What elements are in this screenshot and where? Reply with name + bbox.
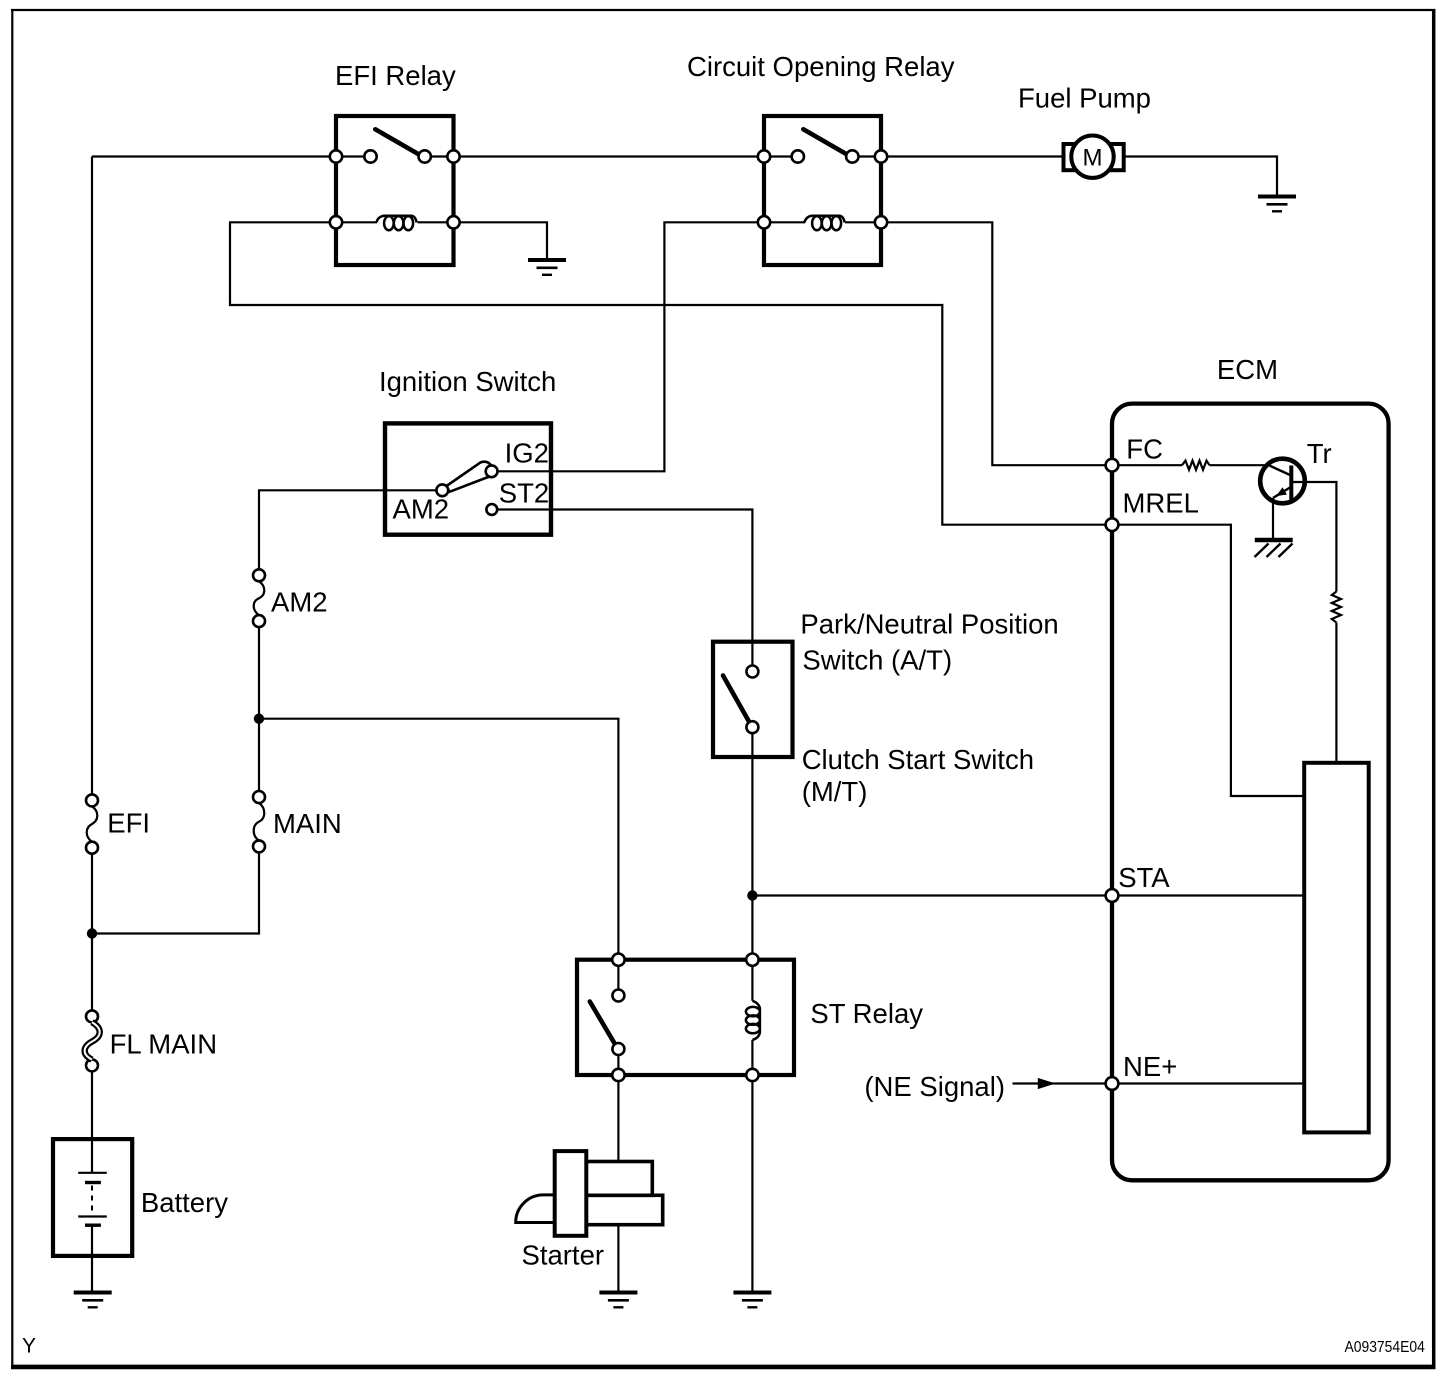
frame border top: [11, 9, 1435, 11]
wire: top feed bus B+ row y=156.5 from left bus to EFI relay contact: [92, 155, 371, 157]
ground: ST relay coil ground: [733, 1293, 771, 1308]
wire: ST relay contact lower to starter: [617, 1049, 619, 1162]
terminal: COR contact pins: [758, 150, 770, 162]
terminal: ECM FC pin: [1106, 459, 1119, 472]
svg-text:MREL: MREL: [1123, 487, 1199, 518]
svg-text:M: M: [1083, 144, 1103, 171]
relay K2 Circuit Opening Relay box: [764, 116, 881, 265]
COR switch blade: [803, 129, 846, 154]
ECM internal logic block: [1304, 763, 1369, 1133]
fuse F3 MAIN: [253, 791, 265, 852]
ECM U1 module outline: [1112, 404, 1389, 1181]
resistor R1 on FC line: [1182, 461, 1210, 470]
wire: COR coil right to ECM FC terminal: [845, 222, 1106, 465]
frame border bottom: [11, 1365, 1435, 1370]
ground: battery ground: [74, 1293, 112, 1308]
starter M2 upper solenoid rect: [584, 1162, 653, 1196]
ignition switch wedge blade: [447, 462, 493, 492]
wire: AM2 fuse to junction to MAIN fuse: [258, 621, 260, 797]
svg-text:(M/T): (M/T): [802, 776, 868, 807]
wire: COR coil left to ignition switch IG2: [492, 222, 805, 471]
wire: AM2 junction to ST relay contact: [259, 719, 618, 996]
wire: NE signal arrow lead: [1013, 1082, 1106, 1084]
svg-text:Park/Neutral Position: Park/Neutral Position: [800, 609, 1058, 640]
svg-text:ST Relay: ST Relay: [810, 998, 923, 1029]
svg-text:AM2: AM2: [271, 587, 328, 618]
battery plate short -: [85, 1181, 101, 1184]
ST relay switch blade: [590, 1002, 616, 1046]
svg-text:EFI: EFI: [107, 808, 150, 839]
svg-text:NE+: NE+: [1123, 1051, 1177, 1082]
transistor Q1 base lead diagonal: [1270, 466, 1291, 475]
terminal: ECM MREL pin: [1106, 518, 1119, 531]
battery plate long +: [78, 1172, 107, 1174]
motor M1 fuel pump brushes bracket: [1064, 144, 1124, 170]
relay K3 ST Relay box: [577, 960, 794, 1075]
svg-text:Battery: Battery: [141, 1187, 228, 1218]
wire: MAIN fuse down and left to battery bus junction: [92, 846, 259, 933]
ground: EFI relay coil ground: [528, 260, 566, 275]
wire: ST relay coil lower to ground: [751, 1040, 753, 1291]
svg-text:MAIN: MAIN: [273, 808, 342, 839]
terminal: P/N switch pins: [746, 666, 758, 678]
switch S1 Ignition Switch box: [385, 423, 551, 534]
junction: battery bus tap: [87, 928, 97, 938]
switch S2 Park/Neutral Position Switch box: [713, 642, 793, 757]
terminal: ignition switch IG2 pin: [486, 465, 498, 477]
svg-text:(NE Signal): (NE Signal): [864, 1071, 1005, 1102]
wire: EFI relay switched output to Circuit Opening Relay contact: [425, 155, 798, 157]
ST relay coil L3: [746, 1001, 760, 1040]
wire: ECM internal STA lead to logic block: [1112, 894, 1304, 896]
wire: left battery bus x=92 upper segment: [91, 157, 93, 801]
P/N switch blade: [723, 676, 749, 722]
junction: AM2 fuse to ST relay tap: [254, 714, 264, 724]
svg-text:FL MAIN: FL MAIN: [110, 1029, 217, 1060]
svg-text:Switch (A/T): Switch (A/T): [802, 645, 952, 676]
motor M1 fuel pump circle: [1071, 136, 1113, 178]
terminal: ST relay pins: [612, 954, 624, 966]
wire: fuel pump to ground: [1124, 157, 1277, 195]
wire: starter to ground: [617, 1225, 619, 1291]
starter M2 vertical body rect: [555, 1151, 587, 1236]
transistor Q1 emitter arrow: [1276, 487, 1287, 496]
frame border left: [11, 9, 13, 1369]
transistor Q1 base bar: [1289, 466, 1293, 501]
COR coil L2: [804, 216, 844, 230]
terminal: ignition switch AM2 pivot: [436, 484, 448, 496]
wire: ECM internal NE+ lead to logic block: [1112, 1082, 1304, 1084]
starter M2 lower motor rect: [584, 1195, 663, 1224]
ground: starter ground: [599, 1293, 637, 1308]
battery BT1 box: [53, 1139, 132, 1256]
battery dashed middle cells: [91, 1186, 93, 1214]
svg-text:Ignition Switch: Ignition Switch: [379, 366, 556, 397]
svg-text:Y: Y: [22, 1335, 36, 1358]
svg-text:Starter: Starter: [522, 1239, 605, 1270]
wire: ECM internal FC lead to resistor and transistor base: [1112, 464, 1182, 466]
battery plate short 2: [85, 1223, 101, 1226]
wire: transistor emitter to ECM ground: [1272, 498, 1274, 538]
wire: STA junction to ECM STA terminal: [752, 894, 1105, 896]
svg-text:STA: STA: [1118, 862, 1170, 893]
svg-text:Clutch Start Switch: Clutch Start Switch: [802, 744, 1034, 775]
resistor R2 collector pull-up: [1332, 592, 1341, 623]
arrow: NE signal input arrowhead: [1038, 1078, 1056, 1089]
svg-text:Circuit Opening Relay: Circuit Opening Relay: [687, 51, 955, 82]
terminal: EFI relay contact pins: [330, 150, 342, 162]
terminal: ECM STA pin: [1106, 889, 1119, 902]
wire: P/N switch lower to STA junction and ST relay coil: [751, 727, 753, 1001]
wire: EFI relay coil row and MREL net to ECM: [230, 222, 1106, 524]
fuse F1 AM2: [253, 569, 265, 627]
wire: ECM internal MREL routing to logic block: [1112, 525, 1304, 796]
svg-text:Fuel Pump: Fuel Pump: [1018, 83, 1151, 114]
ground: fuel pump ground: [1258, 197, 1296, 212]
transistor Q1 Tr circle: [1260, 459, 1305, 504]
terminal: EFI relay coil pins: [330, 216, 342, 228]
transistor Q1 emitter diagonal: [1273, 488, 1290, 498]
svg-text:A093754E04: A093754E04: [1345, 1339, 1426, 1356]
svg-text:AM2: AM2: [393, 493, 450, 524]
EFI relay coil L1: [376, 216, 416, 230]
wire: battery internal + to ground: [91, 1225, 93, 1291]
wire: ignition ST2 to park/neutral position switch: [492, 510, 753, 672]
fusible link F4 FL MAIN: [85, 1010, 100, 1071]
terminal: ignition switch ST2 pin: [486, 504, 497, 515]
battery plate long 2: [78, 1215, 107, 1217]
wire: EFI relay coil right to ground: [418, 222, 548, 258]
svg-text:EFI Relay: EFI Relay: [335, 60, 456, 91]
ground: ECM internal chassis ground under transistor: [1255, 540, 1293, 557]
junction: STA tap at ST relay coil: [747, 890, 757, 900]
wire: left bus FL MAIN to battery box: [91, 1065, 93, 1172]
wire: COR switched output to fuel pump: [852, 155, 1064, 157]
svg-text:FC: FC: [1126, 433, 1163, 464]
fuse F2 EFI: [86, 794, 98, 853]
wire: ignition switch AM2 terminal to AM2 fuse: [259, 490, 442, 575]
EFI relay switch blade: [375, 129, 418, 154]
svg-text:ST2: ST2: [499, 478, 549, 509]
svg-text:ECM: ECM: [1217, 354, 1278, 385]
relay K1 EFI Relay box: [336, 116, 454, 265]
frame border right: [1432, 9, 1436, 1369]
terminal: COR coil pins: [758, 216, 770, 228]
svg-text:Tr: Tr: [1307, 438, 1332, 469]
wire: left bus between EFI fuse and FL MAIN: [91, 848, 93, 1017]
starter M2 drive pinion quarter disc: [516, 1195, 556, 1223]
svg-text:IG2: IG2: [505, 438, 549, 469]
terminal: ECM NE+ pin: [1106, 1077, 1119, 1090]
wire: transistor collector to pull resistor and block: [1293, 482, 1337, 592]
